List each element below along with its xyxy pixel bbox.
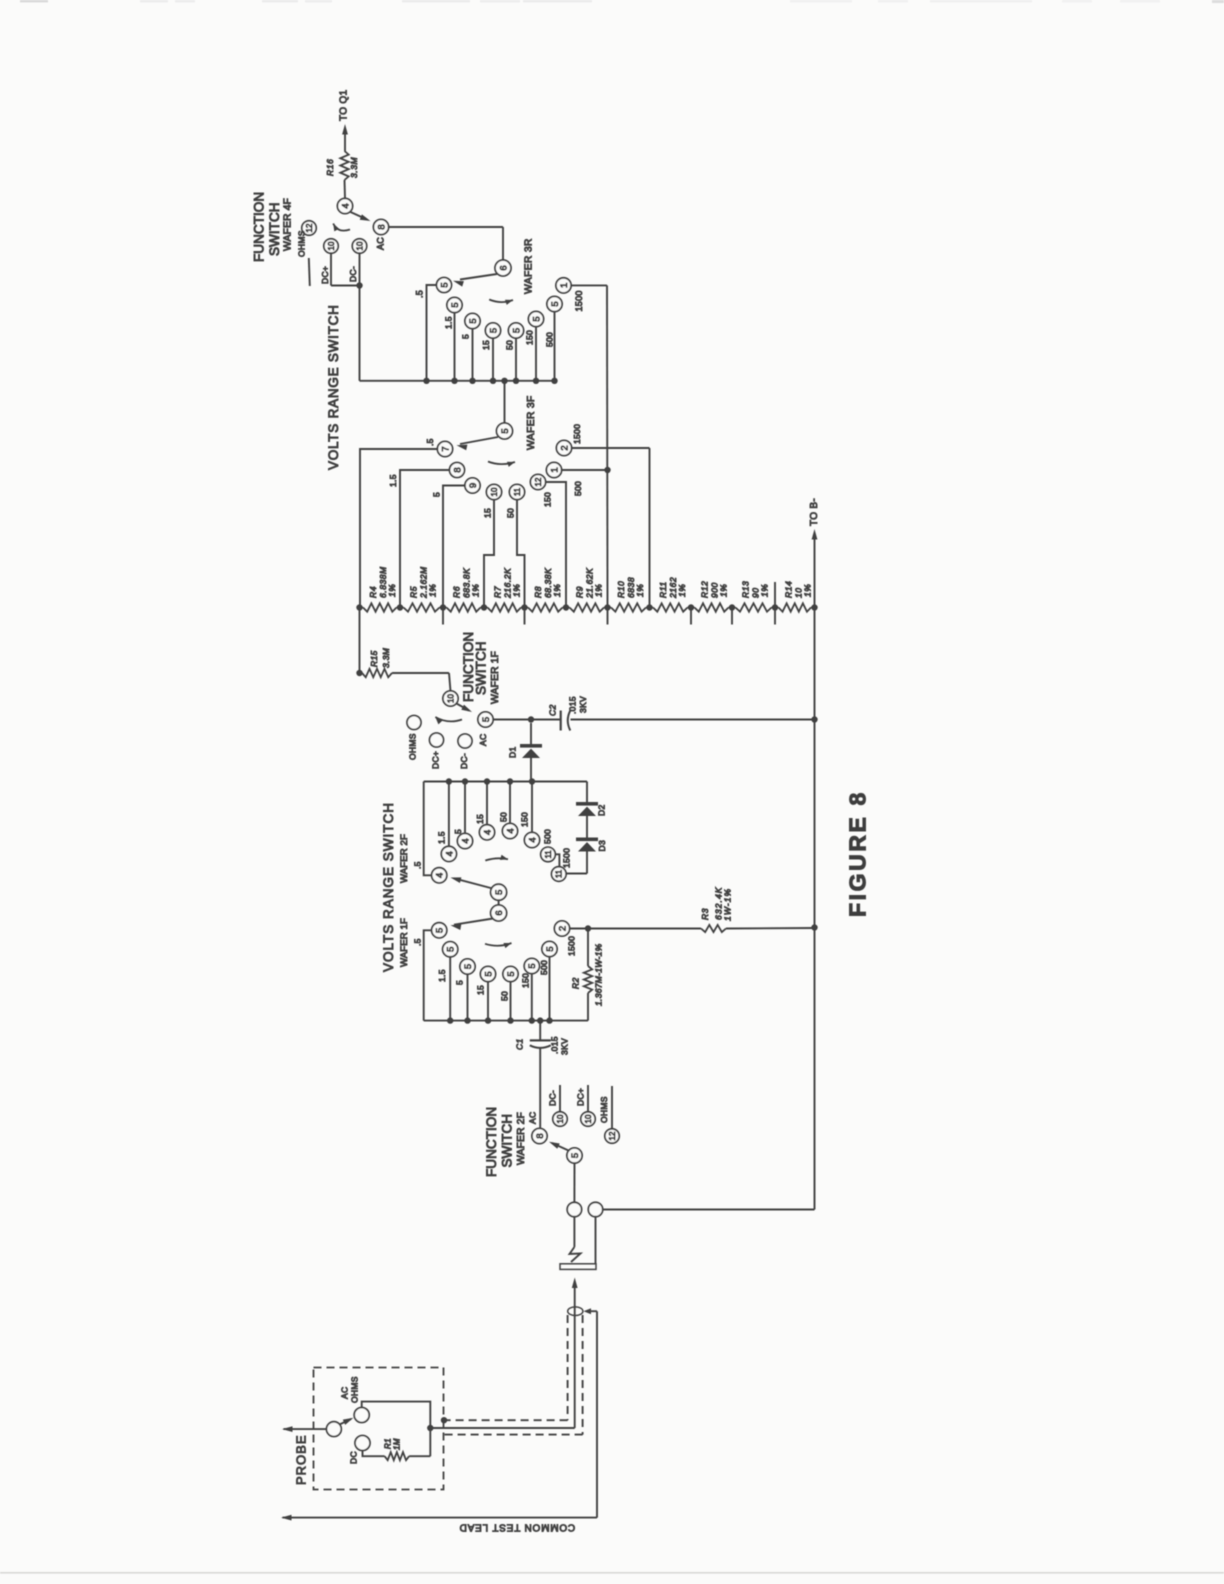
svg-text:4: 4 [444, 851, 455, 856]
svg-text:8: 8 [535, 1133, 546, 1138]
svg-text:DC-: DC- [548, 1090, 558, 1106]
svg-text:SWITCH: SWITCH [473, 641, 488, 695]
svg-text:WAFER 2F: WAFER 2F [516, 1112, 527, 1165]
svg-text:R13: R13 [741, 581, 751, 598]
svg-text:WAFER 1F: WAFER 1F [399, 918, 410, 967]
svg-text:7: 7 [440, 446, 451, 451]
svg-text:10: 10 [584, 1114, 593, 1123]
svg-text:R7: R7 [493, 586, 503, 598]
svg-text:5: 5 [500, 428, 511, 433]
svg-text:.5: .5 [415, 290, 425, 298]
svg-text:1%: 1% [471, 584, 481, 597]
svg-text:C2: C2 [548, 705, 558, 716]
svg-text:FUNCTION: FUNCTION [251, 192, 266, 262]
svg-text:1.5: 1.5 [437, 969, 447, 982]
svg-text:WAFER 3R: WAFER 3R [524, 238, 535, 294]
svg-text:5: 5 [463, 964, 474, 969]
svg-text:DC: DC [349, 1451, 359, 1464]
svg-text:3KV: 3KV [560, 1038, 570, 1055]
svg-text:2: 2 [557, 926, 568, 931]
svg-text:R9: R9 [575, 586, 585, 598]
svg-text:5: 5 [545, 946, 556, 951]
svg-text:11: 11 [513, 487, 522, 496]
svg-text:WAFER 4F: WAFER 4F [283, 198, 294, 251]
svg-text:12: 12 [608, 1131, 617, 1140]
svg-text:R15: R15 [369, 651, 379, 668]
svg-text:4: 4 [482, 830, 493, 835]
svg-text:R2: R2 [571, 978, 581, 989]
svg-text:50: 50 [505, 340, 515, 350]
svg-text:1500: 1500 [567, 936, 577, 956]
svg-text:15: 15 [475, 814, 485, 824]
svg-text:5: 5 [435, 928, 446, 933]
svg-text:D3: D3 [597, 840, 607, 851]
svg-text:150: 150 [521, 973, 531, 988]
svg-text:500: 500 [573, 481, 583, 496]
svg-text:4: 4 [527, 837, 538, 842]
svg-text:AC: AC [528, 1112, 538, 1124]
svg-text:AC: AC [340, 1387, 350, 1399]
svg-text:10: 10 [355, 241, 364, 250]
svg-text:5: 5 [446, 947, 457, 952]
svg-text:R8: R8 [533, 586, 543, 598]
svg-text:5: 5 [483, 971, 494, 976]
svg-text:R6: R6 [452, 586, 462, 598]
svg-text:15: 15 [481, 340, 491, 350]
svg-text:C1: C1 [515, 1039, 525, 1050]
svg-text:1W-1%: 1W-1% [723, 888, 733, 921]
svg-text:COMMON TEST LEAD: COMMON TEST LEAD [459, 1522, 575, 1533]
svg-text:500: 500 [545, 332, 555, 347]
svg-text:1%: 1% [594, 584, 604, 597]
svg-text:SWITCH: SWITCH [499, 1114, 514, 1168]
svg-text:1%: 1% [387, 584, 397, 597]
svg-text:8: 8 [376, 224, 387, 229]
svg-text:500: 500 [543, 829, 553, 844]
svg-text:DC-: DC- [459, 753, 469, 769]
svg-text:R11: R11 [658, 581, 668, 598]
svg-text:R5: R5 [409, 586, 419, 598]
svg-text:DC+: DC+ [431, 751, 441, 769]
svg-text:15: 15 [483, 508, 493, 518]
svg-text:VOLTS RANGE SWITCH: VOLTS RANGE SWITCH [326, 304, 341, 470]
svg-text:5: 5 [454, 980, 464, 985]
svg-text:5: 5 [439, 282, 450, 287]
svg-text:.5: .5 [425, 438, 435, 446]
svg-text:4: 4 [435, 873, 446, 878]
svg-text:12: 12 [534, 477, 543, 486]
svg-text:500: 500 [539, 960, 549, 975]
svg-text:DC+: DC+ [320, 266, 330, 284]
svg-text:50: 50 [506, 508, 516, 518]
svg-text:8: 8 [452, 467, 463, 472]
svg-text:1%: 1% [552, 584, 562, 597]
svg-text:9: 9 [468, 483, 479, 488]
svg-text:WAFER 3F: WAFER 3F [526, 395, 537, 450]
svg-text:5: 5 [550, 301, 561, 306]
svg-text:WAFER 2F: WAFER 2F [399, 834, 410, 883]
svg-text:1500: 1500 [574, 290, 584, 311]
svg-text:4: 4 [340, 203, 351, 208]
svg-text:1M: 1M [392, 1438, 401, 1450]
svg-text:5: 5 [511, 328, 522, 333]
svg-text:4: 4 [505, 828, 516, 833]
svg-text:FIGURE 8: FIGURE 8 [844, 790, 870, 917]
svg-text:6: 6 [494, 910, 505, 915]
svg-text:OHMS: OHMS [350, 1376, 360, 1403]
svg-text:R16: R16 [325, 159, 335, 176]
svg-text:AC: AC [478, 734, 488, 746]
svg-text:3.3M: 3.3M [349, 157, 359, 178]
svg-text:1: 1 [559, 283, 570, 288]
svg-text:R1: R1 [383, 1438, 392, 1449]
svg-text:10: 10 [490, 487, 499, 496]
svg-text:150: 150 [543, 492, 553, 507]
svg-text:5: 5 [481, 717, 492, 722]
svg-text:VOLTS RANGE SWITCH: VOLTS RANGE SWITCH [381, 802, 396, 972]
svg-text:5: 5 [461, 334, 471, 339]
svg-text:2: 2 [559, 445, 570, 450]
svg-text:150: 150 [520, 812, 530, 827]
svg-text:OHMS: OHMS [599, 1096, 609, 1123]
svg-text:5: 5 [506, 971, 517, 976]
svg-text:10: 10 [327, 241, 336, 250]
svg-text:.5: .5 [413, 938, 423, 946]
svg-text:1.5: 1.5 [444, 316, 454, 329]
svg-text:R4: R4 [368, 586, 378, 598]
svg-text:DC+: DC+ [576, 1088, 586, 1106]
svg-text:1500: 1500 [572, 424, 582, 444]
svg-text:R12: R12 [700, 581, 710, 598]
svg-text:5: 5 [453, 829, 463, 834]
svg-text:5: 5 [450, 302, 461, 307]
svg-text:5: 5 [570, 1153, 581, 1158]
svg-text:4: 4 [460, 838, 471, 843]
svg-text:11: 11 [555, 869, 564, 878]
svg-text:TO Q1: TO Q1 [339, 90, 350, 121]
svg-text:SWITCH: SWITCH [267, 202, 282, 256]
svg-text:150: 150 [525, 330, 535, 345]
svg-text:1%: 1% [512, 584, 522, 597]
svg-text:5: 5 [432, 492, 442, 497]
svg-text:1%: 1% [719, 584, 729, 597]
svg-text:1%: 1% [677, 584, 687, 597]
svg-text:.015: .015 [568, 696, 578, 714]
svg-text:R10: R10 [616, 581, 626, 598]
svg-text:15: 15 [476, 985, 486, 995]
svg-text:5: 5 [494, 890, 505, 895]
svg-text:1%: 1% [760, 584, 770, 597]
svg-text:50: 50 [499, 812, 509, 822]
svg-text:10: 10 [556, 1114, 565, 1123]
svg-text:3KV: 3KV [578, 696, 588, 713]
svg-text:WAFER 1F: WAFER 1F [490, 651, 501, 704]
svg-text:OHMS: OHMS [297, 230, 307, 257]
svg-text:1500: 1500 [562, 848, 572, 868]
svg-text:1%: 1% [635, 584, 645, 597]
svg-text:FUNCTION: FUNCTION [484, 1107, 499, 1177]
svg-text:1.5: 1.5 [437, 831, 447, 844]
svg-text:TO B-: TO B- [809, 498, 820, 526]
svg-text:1: 1 [549, 467, 560, 472]
svg-text:1%: 1% [803, 584, 813, 597]
svg-text:D1: D1 [508, 747, 518, 758]
svg-text:10: 10 [446, 694, 455, 703]
svg-text:.5: .5 [413, 861, 423, 869]
svg-text:.015: .015 [550, 1036, 560, 1054]
svg-text:PROBE: PROBE [294, 1434, 309, 1485]
svg-text:DC-: DC- [348, 266, 358, 282]
svg-text:6: 6 [498, 265, 509, 270]
svg-text:5: 5 [527, 963, 538, 968]
svg-text:3.3M: 3.3M [381, 647, 391, 668]
svg-text:R3: R3 [700, 908, 710, 920]
svg-text:D2: D2 [597, 805, 607, 816]
svg-text:R14: R14 [784, 581, 794, 598]
svg-text:OHMS: OHMS [408, 733, 418, 760]
svg-text:5: 5 [531, 316, 542, 321]
svg-text:1%: 1% [428, 584, 438, 597]
svg-text:50: 50 [500, 991, 510, 1001]
svg-text:5: 5 [488, 328, 499, 333]
svg-text:1.5: 1.5 [388, 474, 398, 487]
svg-text:11: 11 [544, 850, 553, 859]
svg-text:AC: AC [376, 237, 386, 250]
svg-text:5: 5 [468, 318, 479, 323]
svg-text:1.367M-1W-1%: 1.367M-1W-1% [594, 943, 604, 1006]
